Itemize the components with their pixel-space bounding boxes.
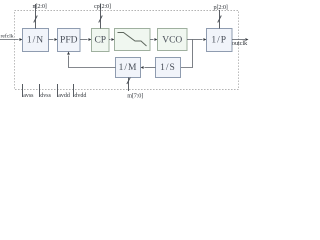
svg-text:cp[2:0]: cp[2:0] bbox=[94, 3, 111, 10]
pin n[2:0] bbox=[34, 4, 38, 29]
svg-text:dvdd: dvdd bbox=[74, 93, 86, 99]
wire CP to loop filter bbox=[109, 39, 111, 41]
oscillator VCO bbox=[158, 29, 188, 51]
divider 1/S bbox=[156, 58, 181, 78]
svg-text:m[7:0]: m[7:0] bbox=[127, 92, 143, 99]
wire VCO output branch down to 1/S bbox=[181, 40, 193, 68]
pin p[2:0] bbox=[218, 10, 222, 29]
wire 1/S to 1/M bbox=[145, 67, 156, 69]
svg-text:p[2:0]: p[2:0] bbox=[214, 4, 228, 11]
pin dvdd bbox=[73, 84, 75, 97]
svg-text:CP: CP bbox=[94, 36, 106, 46]
svg-text:outclk: outclk bbox=[232, 40, 248, 47]
wire PFD to CP bbox=[80, 39, 88, 41]
pin avdd bbox=[57, 84, 59, 97]
pin m[7:0] bbox=[127, 78, 131, 92]
phase-frequency detector PFD bbox=[58, 29, 81, 52]
svg-text:avss: avss bbox=[23, 93, 34, 99]
divider 1/P bbox=[207, 29, 233, 52]
charge pump CP bbox=[92, 29, 110, 52]
wire VCO to 1/P bbox=[187, 39, 203, 41]
svg-text:refclk: refclk bbox=[1, 33, 14, 40]
divider 1/N bbox=[23, 29, 49, 52]
svg-text:PFD: PFD bbox=[60, 36, 78, 46]
loop filter LF bbox=[115, 29, 151, 51]
svg-text:1/M: 1/M bbox=[119, 63, 138, 73]
svg-text:1/N: 1/N bbox=[27, 36, 44, 46]
svg-text:1/P: 1/P bbox=[211, 36, 227, 46]
wire 1/M feedback to PFD bbox=[69, 56, 116, 68]
svg-text:1/S: 1/S bbox=[160, 63, 176, 73]
pin avss bbox=[22, 84, 24, 97]
wire loop filter to VCO bbox=[150, 39, 154, 41]
PLL macro boundary (dashed box) bbox=[15, 11, 239, 90]
pin cp[2:0] bbox=[99, 4, 103, 29]
svg-text:n[2:0]: n[2:0] bbox=[33, 3, 47, 10]
svg-text:avdd: avdd bbox=[58, 93, 70, 99]
wire refclk input bbox=[0, 39, 19, 41]
wire 1/P to outclk bbox=[232, 39, 245, 41]
divider 1/M bbox=[116, 58, 141, 78]
wire 1/N to PFD bbox=[49, 39, 54, 41]
pin dvss bbox=[39, 84, 41, 97]
svg-text:dvss: dvss bbox=[40, 93, 51, 99]
svg-text:VCO: VCO bbox=[162, 36, 182, 46]
